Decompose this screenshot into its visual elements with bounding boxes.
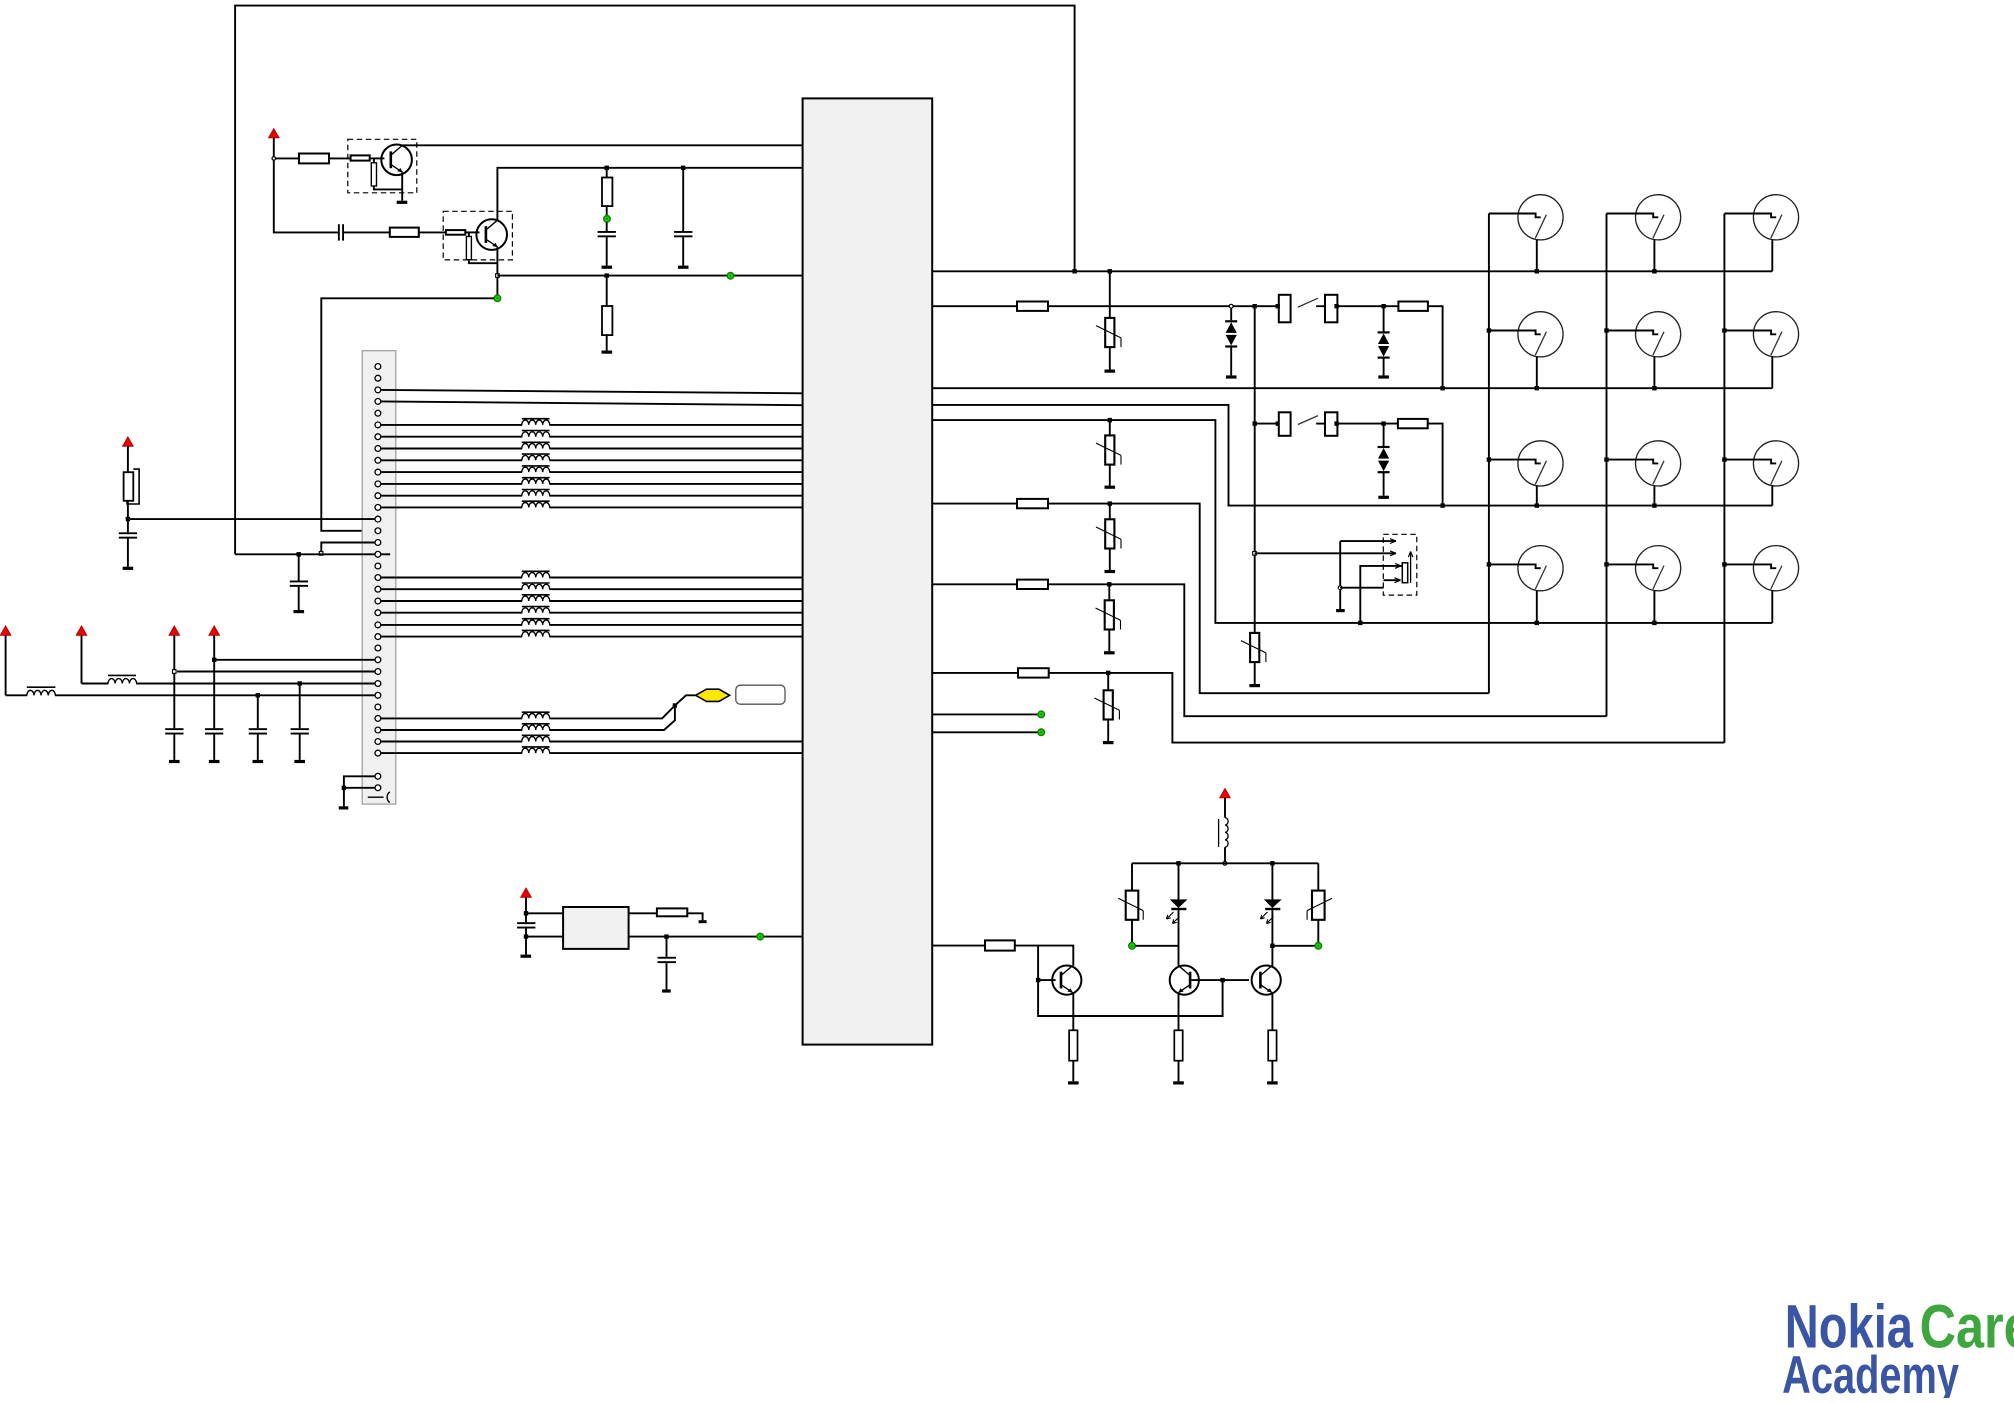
wire X1 pin23 to IC (keypad bus)	[381, 624, 803, 626]
power flag VBAT V1 supply	[269, 129, 279, 138]
wire Q2 emitter node to IC	[497, 275, 802, 277]
junction S1 out / V12	[1381, 304, 1385, 308]
vibra element B1	[1402, 552, 1412, 584]
junction S1 net / ROW2	[1440, 386, 1444, 390]
ferrite bead Z302	[522, 431, 550, 438]
junction S1 right pad	[1334, 304, 1338, 308]
resistor R322	[1017, 580, 1048, 589]
wire C313 to ground	[257, 734, 259, 760]
ground RV6	[1103, 741, 1114, 744]
wire vibra net A vertical	[1339, 541, 1341, 609]
junction S7 / ROW2	[1652, 386, 1656, 390]
ferrite bead Z303	[522, 442, 550, 449]
ferrite bead Z315	[522, 619, 550, 626]
wire IC to ROW3	[932, 405, 1772, 506]
resistor R303 (V1 bias)	[371, 163, 376, 186]
ferrite bead Z301	[522, 419, 550, 426]
ground RV1	[1105, 370, 1116, 373]
wire C321 lower	[525, 929, 527, 955]
wire top frame	[235, 6, 1075, 555]
ground V13	[1378, 496, 1389, 499]
wire IC TP ROW5	[932, 713, 1038, 715]
wire IC to R331	[932, 945, 985, 947]
wire Q5 emitter	[1271, 994, 1273, 1031]
junction vibra C / ROW4	[1358, 621, 1362, 625]
node T3 tap	[173, 670, 177, 674]
resistor R307	[602, 178, 612, 207]
junction S3 / ROW1	[1535, 269, 1539, 273]
wire V1 supply stem	[273, 138, 275, 157]
ferrite bead Z306	[522, 478, 550, 485]
resistor R334	[1268, 1030, 1276, 1060]
wire Q2 base bias drop	[468, 232, 470, 236]
junction COL3 row4 lead	[1722, 562, 1726, 566]
connector X1 pin 35	[375, 773, 381, 779]
connector X1 shield pin symbol	[368, 792, 390, 803]
IC U1 (UI controller)	[803, 98, 933, 1044]
wire TP to C302	[606, 222, 608, 231]
wire IC to COL3	[932, 672, 1018, 674]
Nokia Care Academy logo	[1782, 1293, 2014, 1403]
connector X1 pin 16	[375, 540, 381, 546]
wire S1 to R312	[1337, 305, 1398, 307]
connector X1 pin 25	[375, 645, 381, 651]
wire X1 pin8 to IC (data bus)	[381, 448, 803, 450]
wire R322 to COL2	[1048, 584, 1607, 716]
wire C315 to ground	[127, 538, 129, 566]
node pin16 no-connect	[319, 552, 323, 556]
arrowhead vibra D	[1395, 578, 1401, 583]
wire L303 to node	[1224, 847, 1226, 861]
ferrite bead Z312	[522, 583, 550, 590]
wire X1 pin13 to IC (data bus)	[381, 506, 803, 508]
test point J9	[757, 933, 764, 940]
varistor RV2	[1096, 435, 1121, 464]
junction S2 net / ROW3	[1440, 503, 1444, 507]
inductor L301	[27, 687, 56, 696]
wire R313 to ROW3	[1428, 424, 1443, 506]
wire rail to RV7	[1131, 863, 1133, 890]
wire X1 pin27 to VBAT T3	[177, 671, 375, 673]
wire R332 to ground	[1072, 1061, 1074, 1082]
wire X1 pin19 to IC (keypad bus)	[381, 577, 803, 579]
junction COL2 row3 lead	[1604, 457, 1608, 461]
key switch S7	[1607, 312, 1681, 389]
connector X1 pin 8	[375, 446, 381, 452]
wire V11 to ground	[1230, 347, 1232, 376]
ground V12	[1378, 375, 1389, 378]
junction Q4/Q5 base	[1220, 978, 1224, 982]
transistor Q1 (V1)	[381, 145, 412, 176]
capacitor C303	[674, 231, 692, 237]
ferrite bead Z308	[522, 501, 550, 508]
ground RV4	[1105, 570, 1116, 573]
wire ROW2 net	[932, 387, 1772, 389]
junction S9 / ROW3	[1535, 503, 1539, 507]
ground R332	[1068, 1081, 1079, 1084]
wire X1 pin7 to IC (data bus)	[381, 436, 803, 438]
wire X1 pin24 to IC (keypad bus)	[381, 636, 803, 638]
resistor R333	[1174, 1030, 1182, 1060]
ground R333	[1173, 1081, 1184, 1084]
label box (white rounded)	[736, 685, 785, 704]
junction L301 line / C313	[256, 693, 260, 697]
connector X1 pin 36	[375, 785, 381, 791]
wire TP J2 to connector pin 15	[321, 298, 494, 531]
resistor R308	[602, 306, 612, 335]
connector X1 pin 17	[375, 551, 381, 557]
connector X1 pin 18	[375, 563, 381, 569]
wire X1 pin32 audio	[381, 706, 675, 731]
ground Q1 emitter	[397, 201, 408, 204]
wire X1 ground stem	[343, 788, 345, 807]
varistor RV1	[1096, 318, 1121, 347]
connector X1 pin 1	[375, 364, 381, 370]
junction audio pair	[673, 703, 677, 707]
wire junction to R308	[606, 276, 608, 306]
zener V13 (dual)	[1378, 446, 1390, 473]
wire X1 pin11 to IC (data bus)	[381, 483, 803, 485]
ground C302	[602, 266, 613, 269]
ground R308	[602, 351, 613, 354]
key switch S8	[1724, 312, 1798, 389]
wire to N1 lower pin	[526, 936, 563, 938]
wire F1 stem	[127, 446, 129, 472]
ferrite bead Z307	[522, 490, 550, 497]
junction S2 right pad	[1334, 421, 1338, 425]
junction emitter line / R308	[605, 273, 609, 277]
wire LED rail	[1132, 862, 1318, 864]
inductor L302	[108, 675, 137, 684]
junction S10 / ROW3	[1652, 503, 1656, 507]
wire RV8 to TP	[1317, 920, 1319, 943]
capacitor C301 (series)	[338, 224, 344, 240]
junction S1 left pad	[1276, 304, 1280, 308]
wire RV7 to TP	[1131, 920, 1133, 943]
resistor R304	[390, 228, 419, 237]
wire T3 stem	[173, 635, 175, 728]
wire R303 to Q1 emitter	[374, 186, 402, 189]
wire X1 pin33 to IC	[381, 741, 803, 743]
LED V15	[1261, 899, 1282, 923]
wire X1 pin3 to IC	[381, 390, 803, 393]
junction S13 / ROW4	[1652, 621, 1656, 625]
junction S2 left pad	[1276, 421, 1280, 425]
wire X1 pin6 to IC (data bus)	[381, 424, 803, 426]
resistor R305	[446, 230, 465, 235]
resistor R321	[1017, 499, 1048, 508]
wire Q1 collector to IC pin KBLIGHT	[401, 144, 802, 147]
wire R312 to ROW2	[1428, 306, 1443, 388]
wire X1 pin14 to fuse node	[128, 518, 375, 520]
wire C301 to R304	[344, 231, 390, 233]
resistor R306 (V2 bias)	[466, 237, 471, 260]
wire Q5 base	[1223, 979, 1249, 981]
junction S12 / ROW4	[1535, 621, 1539, 625]
wire T7 stem	[525, 897, 527, 922]
connector X1 pin 15	[375, 528, 381, 534]
wire RV5 to ground	[1108, 630, 1110, 652]
wire V1 node to R301	[274, 157, 299, 159]
wire V12 to ground	[1383, 358, 1385, 376]
wire R307 to TP	[606, 206, 608, 215]
resistor R313	[1398, 419, 1428, 428]
wire vibra net A top	[1340, 540, 1396, 542]
junction T7 / N1 in	[524, 911, 528, 915]
connector X1 pin 13	[375, 505, 381, 511]
connector X1 pin 34	[375, 750, 381, 756]
junction COL2 row4 lead	[1604, 562, 1608, 566]
wire R321 to COL1	[1048, 504, 1489, 694]
wire R341 to ground	[687, 913, 702, 920]
junction N1 out / C322	[664, 934, 668, 938]
key switch S14	[1724, 546, 1798, 623]
junction S1 vertical	[1253, 304, 1257, 308]
dashed box V1	[348, 139, 417, 193]
connector X1 pin 26	[375, 657, 381, 663]
node V1 corner	[272, 157, 276, 161]
ground C312	[209, 760, 220, 763]
key switch S4	[1607, 195, 1681, 272]
wire V13 to ground	[1383, 472, 1385, 496]
capacitor C314	[291, 728, 309, 734]
dashed box V2	[443, 211, 512, 260]
wire Q1 emitter lead	[401, 173, 403, 201]
net flag (yellow) MIC	[696, 689, 730, 701]
wire X1 pin29 coil L301 line	[6, 694, 375, 696]
transistor Q2 (V2)	[476, 219, 507, 250]
capacitor C312	[205, 728, 223, 734]
wire R306 to Q2 emitter	[469, 260, 498, 264]
wire junction to C303	[682, 168, 684, 231]
node vibra tap	[1253, 552, 1257, 556]
arrowhead vibra C	[1395, 564, 1401, 569]
wire V12 stem	[1383, 306, 1385, 331]
wire X1 pin26 to VBAT T4	[214, 659, 375, 661]
connector X1 pin 6	[375, 422, 381, 428]
transistor Q5	[1252, 966, 1281, 995]
ferrite bead Z304	[522, 454, 550, 461]
connector X1 pin 33	[375, 739, 381, 745]
resistor R312	[1398, 302, 1428, 311]
wire junction to C304	[298, 554, 300, 580]
ferrite bead Z322	[522, 724, 550, 731]
junction COL1 row2 lead	[1487, 328, 1491, 332]
connector X1 pin 11	[375, 481, 381, 487]
varistor RV7	[1118, 891, 1143, 920]
connector X1 pin 10	[375, 469, 381, 475]
key switch S12	[1489, 546, 1563, 623]
key switch S11	[1724, 441, 1798, 506]
wire Q2 emitter lead down	[496, 247, 498, 295]
wire RV1 stem	[1109, 271, 1111, 318]
wire S2 from vertical	[1255, 423, 1279, 425]
junction ROW1 / frame	[1072, 269, 1076, 273]
wire V1 node down to C301	[274, 158, 338, 232]
transistor Q4	[1170, 966, 1199, 995]
ground RV5	[1104, 651, 1115, 654]
junction ROW1 / RV1	[1108, 269, 1112, 273]
connector X1 pin 14	[375, 516, 381, 522]
wire junction to C313	[257, 695, 259, 728]
wire X1 pin16 left	[321, 543, 375, 552]
node LED rail	[1223, 861, 1227, 865]
wire T7 to N1 input	[526, 912, 563, 914]
fuse F1	[124, 469, 140, 504]
varistor RV3	[1241, 633, 1266, 662]
arrowhead vibra B	[1390, 551, 1396, 556]
wire T4 stem	[213, 635, 215, 728]
wire R301 to R302	[329, 157, 351, 159]
wire C303 to ground	[682, 237, 684, 266]
connector X1 pin 20	[375, 586, 381, 592]
wire RV6 stem	[1107, 673, 1109, 690]
varistor RV6	[1094, 690, 1119, 719]
ferrite bead Z314	[522, 607, 550, 614]
key switch S13	[1607, 546, 1681, 623]
power flag VBAT F1	[123, 437, 133, 446]
ground C303	[678, 266, 689, 269]
test point J7	[1129, 943, 1136, 950]
key switch S5	[1724, 195, 1798, 272]
inductor L303 (vertical)	[1219, 818, 1229, 848]
key switch S3	[1489, 195, 1563, 272]
capacitor C321	[517, 922, 535, 928]
ground C322	[662, 989, 671, 992]
node vibra A	[1338, 586, 1342, 590]
wire RV2 to ground	[1109, 465, 1111, 486]
zener V12 (dual)	[1378, 331, 1390, 358]
junction COL1 row4 lead	[1487, 562, 1491, 566]
junction pin17 net / C304	[297, 552, 301, 556]
ground vibra A	[1336, 609, 1345, 612]
junction COL3 row2 lead	[1722, 328, 1726, 332]
ground C311	[169, 760, 180, 763]
capacitor C302	[598, 231, 616, 237]
wire junction to R307	[606, 168, 608, 178]
test point J4 (emitter line)	[727, 272, 734, 279]
wire T6 stem	[1224, 798, 1226, 818]
regulator N1	[563, 907, 629, 949]
connector X1 pin 9	[375, 457, 381, 463]
wire X1 pin4 to IC	[381, 401, 803, 405]
wire fuse to node	[127, 501, 129, 533]
wire S1 vertical net	[1254, 306, 1256, 633]
key switch S6	[1489, 312, 1563, 389]
wire vibra net C	[1360, 566, 1402, 623]
wire LED2 cathode to Q5	[1271, 910, 1273, 966]
wire X1 pin20 to IC (keypad bus)	[381, 588, 803, 590]
wire Q4 base	[1192, 979, 1223, 981]
test point J5	[1038, 711, 1045, 718]
junction collector line / R307	[605, 166, 609, 170]
wire node to S1	[1233, 305, 1279, 307]
wire X1 pin17 stub	[381, 553, 390, 555]
wire X1 pin28 coil L302 line	[82, 683, 376, 685]
varistor RV4	[1096, 519, 1121, 548]
wire mirror loop	[1038, 946, 1223, 1016]
junction T4 tap	[212, 658, 216, 662]
wire COL3 vertical	[1723, 214, 1725, 743]
connector X1 pin 30	[375, 704, 381, 710]
junction COL2 / RV5	[1107, 582, 1111, 586]
junction S4 / ROW1	[1652, 269, 1656, 273]
wire R331 to Q3 collector	[1015, 946, 1074, 966]
wire LED1 cathode to Q4	[1178, 910, 1180, 966]
junction COL3 / RV6	[1106, 671, 1110, 675]
wire X1 pin17 ground net	[235, 553, 375, 555]
ground X1	[339, 806, 349, 809]
ferrite bead Z316	[522, 630, 550, 637]
ferrite bead Z313	[522, 595, 550, 602]
varistor RV5	[1096, 600, 1121, 629]
wire S1 zener branch	[1230, 308, 1232, 320]
wire IC to COL1	[932, 503, 1017, 505]
wire C314 to ground	[299, 734, 301, 760]
resistor R332	[1069, 1030, 1077, 1060]
ground C313	[253, 760, 264, 763]
connector X1 pin 27	[375, 669, 381, 675]
power flag VBAT T6	[1220, 789, 1230, 798]
wire C322 to ground	[666, 963, 668, 989]
wire IC to COL2	[932, 583, 1017, 585]
capacitor C315	[119, 532, 137, 538]
wire vibra A lower leg	[1340, 587, 1383, 589]
wire rail to RV8	[1317, 863, 1319, 890]
test point J6	[1038, 729, 1045, 736]
connector X1 pin 22	[375, 610, 381, 616]
dashed box vibra B1	[1383, 534, 1417, 595]
resistor R323	[1018, 668, 1049, 677]
connector X1 pin 5	[375, 410, 381, 416]
wire N1 to R341	[629, 912, 657, 914]
wire IC to switch S1	[932, 305, 1017, 307]
resistor R302	[351, 155, 370, 160]
key switch S9	[1489, 441, 1563, 506]
wire R305 to Q2 base	[465, 231, 479, 233]
wire V13 stem	[1383, 424, 1385, 447]
connector X1 pin 21	[375, 598, 381, 604]
node Q2 emitter tap	[496, 274, 500, 278]
connector X1 pin 32	[375, 727, 381, 733]
junction rail / LED2	[1270, 861, 1274, 865]
wire R323 to COL3	[1049, 673, 1725, 743]
junction COL2 row2 lead	[1604, 328, 1608, 332]
connector X1 pin 23	[375, 622, 381, 628]
wire C302 to ground	[606, 237, 608, 266]
wire R302 to Q1 base	[370, 157, 385, 159]
wire X1 pin21 to IC (keypad bus)	[381, 600, 803, 602]
ferrite bead Z323	[522, 735, 550, 742]
ground C321	[521, 955, 532, 958]
wire C304 to ground	[298, 587, 300, 610]
switch S1 (power key)	[1279, 295, 1338, 323]
capacitor C322	[658, 957, 676, 963]
wire LED1 anode	[1178, 863, 1180, 899]
wire RV1 to ground	[1109, 347, 1111, 369]
wire junction to TP J8	[1272, 945, 1315, 947]
wire RV2 stem	[1109, 420, 1111, 435]
junction ROW4 line / RV2	[1108, 418, 1112, 422]
wire R308 to ground	[606, 335, 608, 350]
connector X1 pin 19	[375, 575, 381, 581]
wire R304 to R305	[419, 231, 446, 233]
test point J8	[1315, 943, 1322, 950]
wire X1 pin36 left	[344, 787, 375, 789]
connector X1 pin 2	[375, 375, 381, 381]
wire TP J7 to LED1 cathode	[1135, 945, 1178, 947]
wire R333 to ground	[1178, 1061, 1180, 1082]
